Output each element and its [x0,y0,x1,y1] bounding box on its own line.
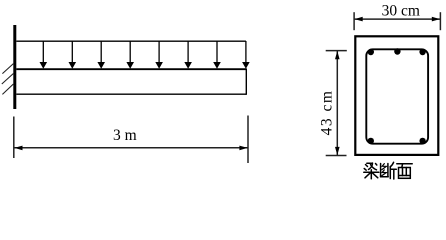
width dimension left tick [353,12,355,30]
rebar bottom-left [368,138,374,144]
width dimension right arrowhead [432,17,440,22]
stirrup rounded rectangle [366,49,428,143]
height dimension bottom arrowhead [335,147,340,155]
svg-text:43 cm: 43 cm [319,90,336,136]
beam bottom line [16,93,246,95]
height dimension bottom tick [326,155,347,157]
height dimension top tick [326,50,347,52]
glyph mian 面 [397,164,412,179]
rebar bottom-right [419,138,425,144]
span dimension right arrowhead [239,146,247,151]
span dimension line [14,147,247,149]
wall hatch 1 [2,64,13,74]
load arrow 3 [97,41,105,69]
rebar top-middle [394,48,400,54]
rebar top-right [419,49,425,55]
section outer rectangle [355,36,438,155]
load arrow 1 [40,41,48,69]
width dimension right tick [439,12,441,30]
wall hatch 2 [2,74,14,85]
rebar top-left [368,49,374,55]
load arrow 7 [213,41,221,69]
load arrow 2 [69,41,77,69]
width dimension line [355,18,441,20]
width dimension left arrowhead [355,17,363,22]
span dimension left extension line [13,117,15,159]
span dimension left arrowhead [14,146,22,151]
caption: hand-drawn CJK 梁斷面 (beam cross-section) [364,162,412,179]
svg-text:3 m: 3 m [113,127,137,144]
glyph duan 斷 [381,162,397,179]
glyph liang 梁 [364,163,379,179]
svg-text:30 cm: 30 cm [382,2,420,19]
load arrow 8 [242,41,250,69]
height dimension top arrowhead [335,51,340,59]
load arrow 5 [155,41,163,69]
beam top line [16,68,246,70]
load arrow 6 [184,41,192,69]
load arrow 4 [126,41,134,69]
distributed load top line [16,40,246,42]
span dimension right extension line [247,116,249,164]
beam right end line [245,69,247,95]
fixed support wall line [13,25,16,109]
wall hatch 3 [2,84,13,94]
height dimension line [336,51,338,155]
